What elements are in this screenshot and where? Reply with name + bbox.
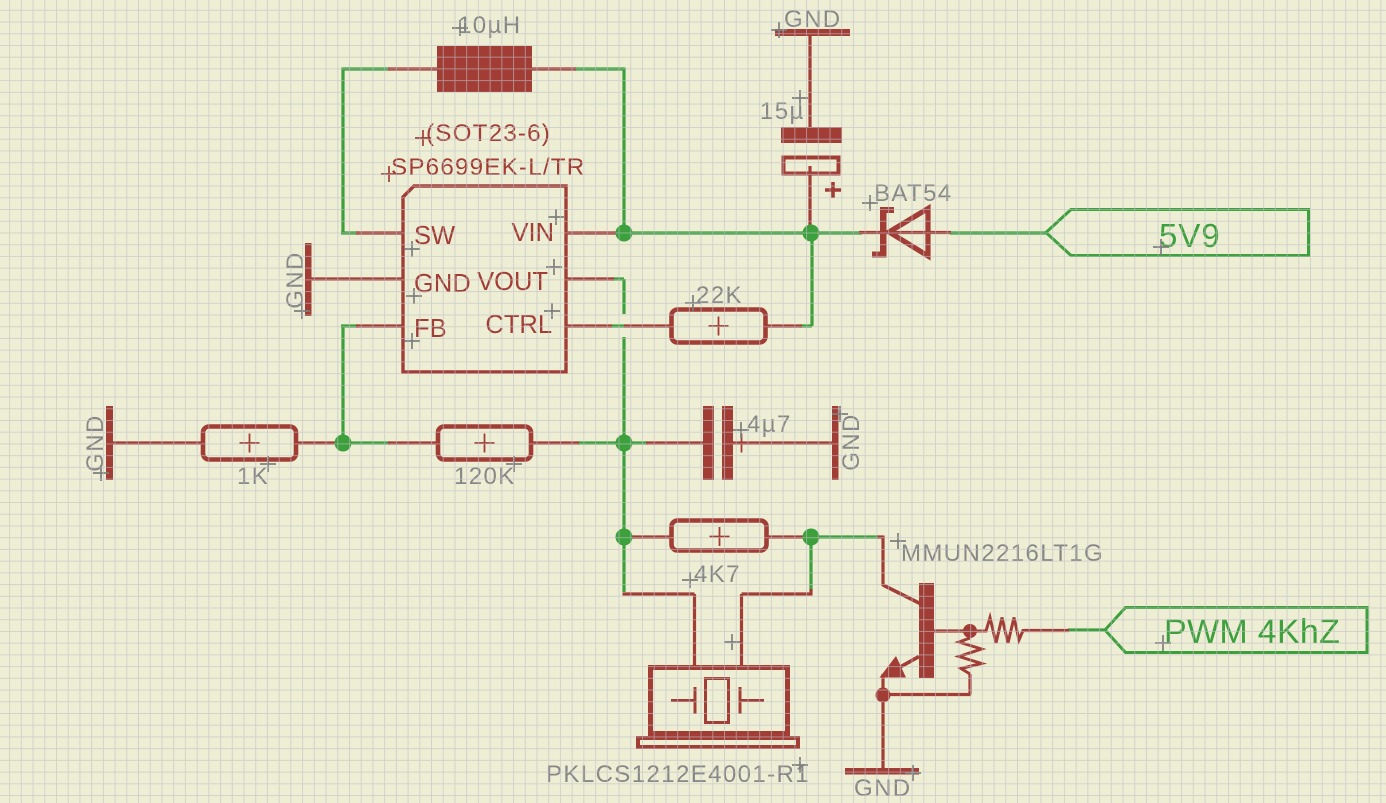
resistor 120K center cross bbox=[475, 434, 495, 453]
wire bbox=[532, 441, 579, 444]
capacitor C1 plus sign bbox=[825, 182, 841, 198]
wire bbox=[800, 233, 812, 326]
wire bbox=[859, 231, 951, 234]
capacitor C1 15u top plate bbox=[781, 127, 842, 143]
origin cross GND left bbox=[93, 465, 109, 481]
origin cross pin VOUT bbox=[546, 259, 562, 275]
wire bbox=[881, 674, 884, 691]
wire bbox=[341, 325, 358, 444]
junction node VIN-left bbox=[616, 225, 633, 242]
wire bbox=[732, 441, 834, 444]
origin cross PKLCS bbox=[792, 757, 808, 773]
transistor Q1 emitter arrow bbox=[880, 656, 907, 678]
transistor Q1 internal resistor R1 zigzag bbox=[977, 618, 1026, 644]
wire bbox=[612, 279, 624, 314]
wire bbox=[811, 231, 862, 234]
buzzer crystal box bbox=[706, 679, 729, 723]
origin cross SP6699 bbox=[381, 166, 397, 182]
ground bar bottom (transistor emitter) bbox=[845, 768, 919, 775]
capacitor C2 origin cross bbox=[732, 434, 751, 453]
wire bbox=[622, 337, 625, 592]
origin cross BAT54 bbox=[862, 195, 878, 211]
junction dot base bbox=[963, 624, 977, 638]
origin cross pin VIN bbox=[548, 209, 564, 225]
transistor Q1 internal resistor R2 zigzag bbox=[959, 638, 982, 674]
ground bar right of C2 bbox=[832, 406, 839, 480]
wire bbox=[343, 441, 390, 444]
origin cross GND near IC bbox=[294, 303, 310, 319]
wire bbox=[577, 441, 624, 444]
origin cross pin CTRL bbox=[544, 303, 560, 319]
origin cross 10uH bbox=[452, 20, 468, 36]
wire bbox=[343, 67, 390, 70]
wire bbox=[646, 441, 704, 444]
resistor 120K body bbox=[438, 427, 531, 460]
wire bbox=[566, 277, 614, 280]
buzzer SP1 foot plate bbox=[638, 738, 798, 747]
transistor Q1 collector line bbox=[883, 585, 921, 604]
origin cross 120K bbox=[506, 456, 522, 472]
resistor 4K7 body bbox=[672, 521, 767, 551]
origin cross MMUN bbox=[890, 533, 906, 549]
wire bbox=[624, 535, 634, 538]
wire bbox=[808, 36, 811, 128]
wire bbox=[297, 441, 338, 444]
wire bbox=[356, 231, 404, 234]
junction dot emitter bbox=[876, 688, 891, 703]
origin cross pin SW bbox=[404, 241, 420, 257]
wire bbox=[532, 67, 576, 70]
buzzer left electrode bbox=[671, 687, 695, 714]
junction node buzzer left bbox=[616, 529, 633, 546]
ground bar near IC bbox=[305, 243, 312, 316]
capacitor C2 4u7 right plate bbox=[722, 406, 733, 480]
buzzer right electrode bbox=[740, 687, 764, 714]
ground bar left bbox=[106, 406, 113, 480]
resistor 1K center cross bbox=[240, 434, 260, 453]
capacitor C2 4u7 left plate bbox=[703, 406, 714, 480]
origin cross PWM bbox=[1155, 635, 1171, 651]
wire bbox=[883, 674, 971, 695]
wire bbox=[1024, 629, 1069, 632]
IC U1 SP6699EK-L/TR box bbox=[403, 186, 566, 372]
ground bar top (GND) bbox=[775, 29, 850, 36]
net flag 5V9 outline bbox=[1046, 210, 1309, 256]
resistor 1K body bbox=[203, 427, 296, 460]
transistor Q1 emitter line bbox=[886, 657, 919, 676]
origin cross 1K bbox=[260, 456, 276, 472]
resistor 4K7 center cross bbox=[710, 527, 730, 546]
origin cross 4u7 bbox=[733, 422, 749, 438]
wire bbox=[933, 629, 964, 632]
resistor 22K body bbox=[672, 310, 766, 343]
wire bbox=[574, 67, 624, 70]
resistor 22K center cross bbox=[709, 317, 729, 336]
wire bbox=[341, 68, 344, 234]
wire bbox=[881, 699, 884, 769]
wire bbox=[356, 324, 404, 327]
diode D1 BAT54 triangle bbox=[889, 209, 928, 257]
wire bbox=[388, 441, 437, 444]
wire bbox=[808, 166, 811, 227]
wire bbox=[950, 231, 1046, 234]
wire bbox=[566, 231, 620, 234]
wire bbox=[766, 324, 802, 327]
wire bbox=[877, 536, 883, 587]
origin cross pin FB bbox=[404, 333, 420, 349]
wire bbox=[622, 68, 625, 234]
junction node FB divider bbox=[335, 435, 352, 452]
origin cross buzzer bbox=[724, 634, 740, 650]
origin cross 15u bbox=[792, 90, 808, 106]
wire bbox=[388, 67, 437, 70]
junction node buzzer right bbox=[803, 529, 820, 546]
wire bbox=[624, 231, 811, 234]
junction node VOUT divider bbox=[616, 435, 633, 452]
origin cross SOT23-6 bbox=[415, 130, 431, 146]
inductor L1 10uH body bbox=[437, 46, 532, 92]
wire bbox=[818, 535, 879, 538]
wire bbox=[742, 589, 813, 666]
transistor Q1 base bar bbox=[919, 583, 934, 678]
diode D1 BAT54 cathode bar bbox=[880, 207, 887, 258]
wire bbox=[566, 324, 671, 327]
origin cross GND bottom bbox=[905, 765, 921, 781]
wire bbox=[624, 441, 648, 444]
origin cross GND top bbox=[771, 22, 787, 38]
wire bbox=[632, 535, 670, 538]
origin cross 22K bbox=[685, 295, 701, 311]
buzzer SP1 outer box bbox=[651, 668, 788, 734]
net flag PWM outline bbox=[1105, 608, 1367, 653]
wire bbox=[1068, 628, 1105, 631]
origin cross 5V9 bbox=[1153, 239, 1169, 255]
wire bbox=[311, 277, 404, 280]
wire bbox=[623, 594, 695, 666]
wire bbox=[112, 441, 202, 444]
origin cross 4K7 bbox=[682, 572, 698, 588]
origin cross pin GND bbox=[406, 288, 422, 304]
wire bbox=[341, 231, 358, 234]
wire bbox=[768, 535, 806, 538]
junction node VIN-right bbox=[803, 225, 820, 242]
capacitor C1 15u bottom plate bbox=[784, 158, 839, 174]
origin cross GND right of C2 bbox=[832, 406, 848, 422]
wire bbox=[809, 537, 812, 591]
wire bbox=[611, 324, 625, 327]
